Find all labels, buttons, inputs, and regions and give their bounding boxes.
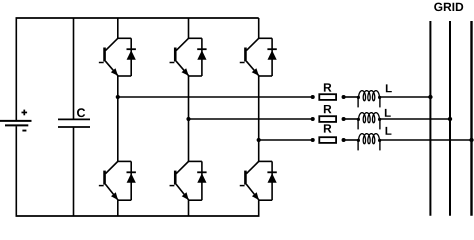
IGBT Q1 (leg 1 upper) — [105, 38, 118, 51]
wire: phase A output line — [118, 96, 313, 98]
wire: battery negative lead — [15, 126, 17, 216]
label: R (phase B) — [324, 105, 332, 113]
wire: leg 1 midpoint link — [117, 76, 119, 97]
wire: cell bottom branch (leg 2 lower) — [189, 199, 202, 201]
label: battery + terminal — [22, 112, 28, 114]
node: phase B resistor output — [342, 117, 346, 121]
wire: leg 2 lower drop — [188, 119, 190, 161]
wire: phase C R to L link — [344, 139, 359, 141]
battery V1 negative plate — [5, 124, 28, 126]
node: phase A resistor output — [342, 95, 346, 99]
IGBT Q2 (leg 3 lower) — [246, 161, 259, 174]
label: L (phase C) — [386, 127, 392, 135]
node: phase A inductor input — [357, 96, 360, 99]
wire: leg 1 lower emitter to DC- rail — [117, 200, 119, 216]
node: phase B inductor output — [378, 118, 381, 121]
wire: phase A R to L link — [344, 96, 359, 98]
IGBT Q5 (leg 3 upper) — [246, 38, 259, 51]
label: capacitor C — [77, 108, 85, 117]
wire: cell bottom branch (leg 1 lower) — [118, 199, 131, 201]
wire: phase B R to L link — [344, 118, 359, 120]
node: phase A inductor output — [378, 96, 381, 99]
wire: leg 1 lower drop — [117, 97, 119, 161]
wire: DC+ top rail — [16, 17, 259, 19]
label: R (phase C) — [324, 124, 332, 132]
node: phase C inductor output — [378, 139, 381, 142]
wire: cell bottom branch (leg 3 upper) — [259, 75, 272, 77]
wire: phase C output line — [259, 139, 313, 141]
wire: phase A to grid — [380, 96, 431, 98]
node: phase C resistor input — [311, 138, 315, 142]
diode D6 (antiparallel) (leg 2 lower) — [201, 161, 203, 200]
wire: leg 3 lower drop — [258, 140, 260, 161]
wire: capacitor top lead — [73, 18, 75, 119]
diode D5 (antiparallel) (leg 3 upper) — [271, 38, 273, 76]
wire: phase C to grid — [380, 139, 472, 141]
label: R (phase A) — [324, 83, 332, 91]
node: phase A resistor input — [311, 95, 315, 99]
wire: cell bottom branch (leg 3 lower) — [259, 199, 272, 201]
diode D4 (antiparallel) (leg 1 lower) — [130, 161, 132, 200]
node: phase B resistor input — [311, 117, 315, 121]
wire: cell top branch (leg 3 lower) — [259, 160, 272, 162]
wire: leg 2 midpoint link — [188, 76, 190, 119]
IGBT Q4 (leg 1 lower) — [105, 161, 118, 174]
wire: leg 2 lower emitter to DC- rail — [188, 200, 190, 216]
node: phase C midpoint — [257, 138, 261, 142]
wire: leg 2 upper collector drop — [188, 18, 190, 38]
node: phase C inductor input — [357, 139, 360, 142]
wire: phase B output line — [189, 118, 313, 120]
node: phase A grid connection — [428, 95, 432, 99]
capacitor C bottom plate — [58, 126, 90, 128]
resistor R (phase A) — [319, 94, 336, 100]
wire: cell top branch (leg 1 lower) — [118, 160, 131, 162]
inductor L (phase B) — [359, 113, 380, 123]
wire: cell bottom branch (leg 2 upper) — [189, 75, 202, 77]
IGBT Q6 (leg 2 lower) — [176, 161, 189, 174]
diode D3 (antiparallel) (leg 2 upper) — [201, 38, 203, 76]
wire: cell top branch (leg 2 upper) — [189, 37, 202, 39]
label: GRID — [434, 3, 463, 12]
wire: cell top branch (leg 1 upper) — [118, 37, 131, 39]
wire: grid phase B bus — [449, 21, 451, 216]
label: L (phase A) — [386, 84, 392, 92]
label: L (phase B) — [385, 109, 391, 117]
wire: phase B to grid — [380, 118, 450, 120]
wire: grid phase C bus — [470, 21, 472, 216]
label: battery - terminal — [22, 130, 26, 132]
wire: cell bottom branch (leg 1 upper) — [118, 75, 131, 77]
inductor L (phase A) — [359, 91, 380, 101]
battery V1 positive plate — [0, 120, 32, 122]
diode D1 (antiparallel) (leg 1 upper) — [130, 38, 132, 76]
capacitor C top plate — [58, 118, 90, 120]
wire: battery positive lead — [15, 18, 17, 120]
wire: leg 1 upper collector drop — [117, 18, 119, 38]
node: phase B inductor input — [357, 118, 360, 121]
wire: leg 3 lower emitter to DC- rail — [258, 200, 260, 216]
wire: grid phase A bus — [429, 21, 431, 216]
node: phase A midpoint — [116, 95, 120, 99]
node: phase B grid connection — [448, 117, 452, 121]
node: phase B midpoint — [186, 117, 190, 121]
resistor R (phase B) — [319, 116, 336, 122]
wire: DC- bottom rail — [16, 215, 260, 217]
wire: cell top branch (leg 3 upper) — [259, 37, 272, 39]
node: phase C resistor output — [342, 138, 346, 142]
node: phase C grid connection — [469, 138, 473, 142]
wire: leg 3 upper collector drop — [258, 18, 260, 38]
inductor L (phase C) — [359, 134, 380, 144]
wire: leg 3 midpoint link — [258, 76, 260, 140]
wire: capacitor bottom lead — [73, 127, 75, 216]
diode D2 (antiparallel) (leg 3 lower) — [271, 161, 273, 200]
IGBT Q3 (leg 2 upper) — [176, 38, 189, 51]
wire: cell top branch (leg 2 lower) — [189, 160, 202, 162]
resistor R (phase C) — [319, 137, 336, 143]
